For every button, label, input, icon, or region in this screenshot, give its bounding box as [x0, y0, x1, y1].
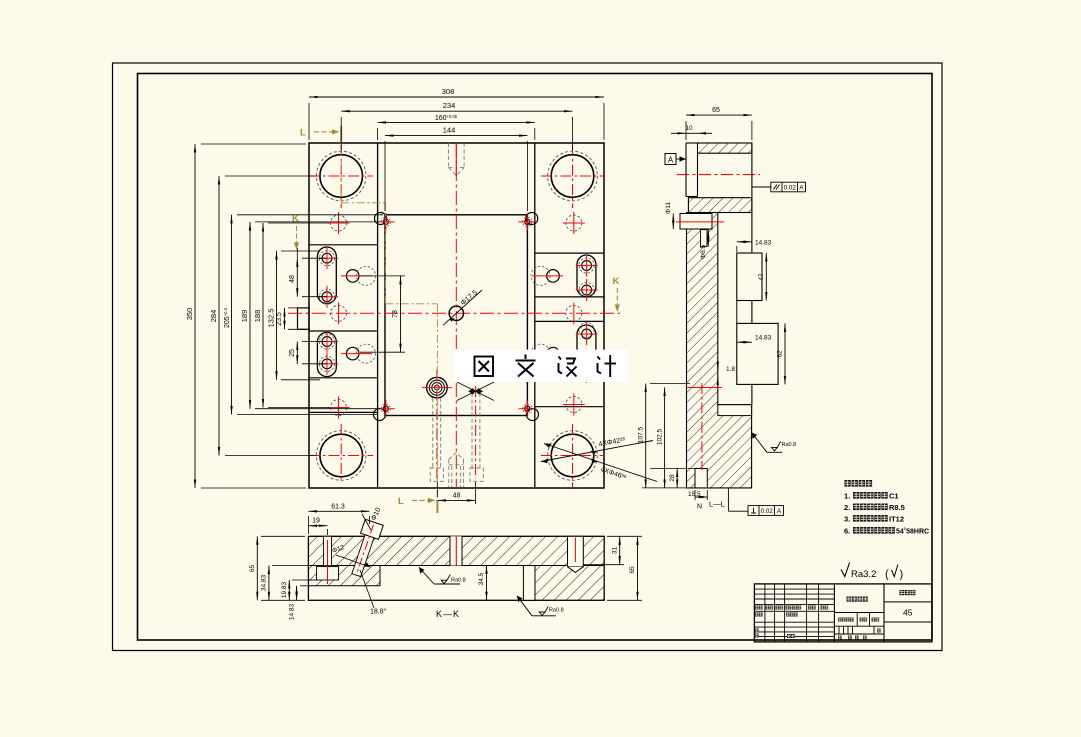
svg-text:61.3: 61.3: [331, 503, 345, 510]
surface symbol KK right: [517, 596, 564, 616]
dim 234 top: [341, 101, 572, 150]
sheet count row: [838, 636, 867, 640]
svg-text:Φ11: Φ11: [665, 202, 672, 214]
dim 107.5: [638, 384, 691, 488]
guide hole top-left: [309, 145, 373, 208]
note 1: [844, 492, 899, 501]
svg-text:34.5: 34.5: [478, 572, 485, 585]
slot left upper: [316, 247, 338, 308]
vent hole right bottom: [563, 394, 585, 416]
dim 25 slot: [289, 342, 327, 364]
dim 62: [777, 323, 786, 384]
dim 102.5: [657, 387, 665, 488]
svg-text:48: 48: [289, 275, 296, 283]
title block middle cells: [834, 613, 884, 635]
svg-text:188: 188: [253, 310, 262, 323]
dim 23.5: [276, 308, 285, 329]
svg-text:47: 47: [758, 273, 765, 281]
svg-text:6.: 6.: [844, 527, 850, 536]
corner screw TL: [377, 213, 395, 231]
watermark glyph SHE: [559, 357, 577, 377]
left table texts: [755, 606, 828, 610]
dim 1.8: [718, 362, 736, 384]
svg-text:0.02: 0.02: [761, 508, 774, 515]
dim 189 left: [240, 222, 380, 409]
label phi10: [362, 507, 383, 530]
svg-text:N: N: [697, 504, 702, 511]
KK white channel: [523, 566, 535, 601]
svg-text:Ra0.8: Ra0.8: [782, 442, 797, 448]
notch white in wall: [718, 405, 752, 416]
slot left lower: [316, 331, 338, 377]
svg-text:14.83: 14.83: [289, 603, 296, 620]
right step line: [534, 143, 536, 488]
svg-text:189: 189: [240, 310, 249, 323]
left step line: [377, 143, 379, 488]
svg-text:14.83: 14.83: [755, 335, 772, 342]
KK centre sprue hole: [450, 536, 462, 565]
dim 48 bottom: [437, 482, 475, 504]
svg-text:62: 62: [777, 350, 784, 358]
dim phi11: [665, 202, 673, 229]
dim 284 left: [209, 176, 316, 456]
parallelism frame: [752, 182, 806, 192]
right strip step lines: [535, 253, 604, 407]
left edge notch: [288, 308, 310, 329]
section line L-L: [300, 126, 437, 513]
svg-text:1.: 1.: [844, 492, 850, 501]
KK left block bottom edge: [308, 566, 380, 586]
dim 19.83: [281, 580, 310, 600]
dim 132.5 left: [267, 251, 321, 380]
svg-text:28: 28: [669, 474, 676, 482]
left strip step lines: [309, 245, 378, 413]
vent hole right top: [563, 212, 585, 234]
dim 28: [642, 469, 697, 488]
surface finish symbol right view: [752, 433, 797, 453]
svg-text:C1: C1: [889, 492, 899, 501]
counterbore right upper: [531, 266, 563, 285]
svg-text:65: 65: [712, 107, 720, 114]
centre hole leader: [443, 289, 482, 325]
watermark glyph WEN: [516, 355, 536, 377]
svg-text:65: 65: [249, 565, 256, 573]
svg-text:54˚58HRC: 54˚58HRC: [896, 528, 929, 536]
dim 34.5: [478, 566, 487, 601]
dim 65 KK right: [607, 536, 642, 600]
dim 10 top: [671, 125, 712, 133]
notes title: [845, 480, 873, 487]
KK left lower hatch block: [308, 566, 380, 586]
surface symbol KK middle: [419, 567, 466, 584]
svg-text:107.5: 107.5: [638, 426, 645, 443]
KK slanted hole: [347, 519, 383, 578]
material 45: [903, 608, 913, 618]
title block vertical lines: [765, 584, 884, 642]
red centerline lower wall: [686, 383, 722, 470]
KK right hatch block: [535, 566, 604, 601]
dim 19: [308, 518, 327, 535]
svg-text:Φ6.5: Φ6.5: [700, 245, 707, 260]
datum A flag: [665, 154, 686, 165]
svg-text:144: 144: [443, 126, 456, 135]
svg-text:Ra0.8: Ra0.8: [451, 578, 466, 584]
sleeve bore centerline: [677, 174, 760, 176]
svg-text:L: L: [398, 496, 404, 507]
guide bushing: [422, 377, 452, 398]
svg-text:102.5: 102.5: [657, 428, 664, 445]
hidden screw column right of centre: [470, 386, 483, 481]
title block right column lines: [884, 602, 932, 622]
outer border frame: [113, 63, 943, 651]
svg-text:19.83: 19.83: [281, 581, 288, 598]
watermark glyph JI: [598, 355, 617, 377]
dim 31: [583, 536, 624, 564]
vent hole left bottom: [328, 397, 350, 419]
dim 144 top: [385, 126, 527, 211]
hidden sprue top: [448, 143, 464, 176]
plate outline: [309, 143, 604, 488]
svg-text:34.83: 34.83: [261, 574, 268, 591]
note 2: [844, 503, 905, 512]
svg-text:48: 48: [453, 492, 461, 499]
corner screw BL: [377, 400, 395, 418]
phi11 hole: [676, 214, 724, 230]
dim 188 left: [253, 223, 329, 408]
slot right lower: [576, 322, 598, 383]
pocket rectangle: [385, 215, 527, 416]
vent hole left top: [328, 212, 350, 234]
dim 65 KK left: [249, 536, 305, 600]
svg-text:(: (: [885, 569, 889, 581]
dim 18.8deg: [360, 570, 387, 616]
svg-text:25: 25: [289, 349, 296, 357]
KK band bottom edge: [308, 565, 604, 567]
guide hole top-right: [541, 145, 604, 208]
svg-text:2.: 2.: [844, 503, 850, 512]
svg-text:IT12: IT12: [889, 515, 904, 524]
vent hole right mid: [566, 302, 582, 324]
counterbore group label 4x42: [541, 436, 653, 463]
svg-text:45: 45: [903, 608, 913, 618]
svg-text:234: 234: [443, 101, 456, 110]
svg-text:350: 350: [185, 308, 194, 321]
dim 48 slot: [289, 248, 327, 297]
counterbore left upper: [341, 266, 376, 285]
KK screw hole: [317, 536, 339, 584]
KK label: [436, 609, 460, 619]
svg-text:Ra3.2: Ra3.2: [851, 569, 876, 580]
sleeve top hatch band: [698, 143, 752, 153]
svg-text:14.83: 14.83: [755, 239, 772, 246]
dim 61.3: [308, 503, 369, 534]
pocket corner arcs: [374, 213, 539, 421]
counterbore group label 4x46: [544, 444, 657, 482]
counterbore right lower: [531, 344, 563, 363]
svg-text:65: 65: [629, 566, 636, 574]
hidden sprue bottom centre: [449, 453, 464, 488]
centre hole: [449, 306, 463, 320]
title block horizontal lines left table: [754, 589, 834, 637]
svg-text:L: L: [300, 128, 306, 139]
dim 14.83 KK: [289, 586, 311, 620]
slot right upper: [576, 255, 598, 302]
dim 34.83: [261, 566, 345, 601]
dim 308 top: [309, 87, 604, 140]
dim 14.83 upper: [737, 239, 772, 252]
title block frame: [754, 584, 932, 642]
svg-text:Ra0.8: Ra0.8: [549, 608, 564, 614]
svg-text:1.8: 1.8: [726, 366, 735, 373]
svg-text:L—L: L—L: [709, 500, 725, 509]
dim 160 top: [378, 114, 535, 140]
svg-text:18.8°: 18.8°: [370, 608, 387, 616]
corner screw BR: [519, 400, 537, 418]
hidden screw column left of centre: [430, 370, 443, 481]
university name: [847, 597, 868, 602]
svg-text:K—K: K—K: [436, 609, 460, 619]
svg-text:0.02: 0.02: [784, 185, 797, 192]
svg-text:284: 284: [209, 310, 218, 323]
label N and L-L: [697, 500, 725, 511]
KK top hatch band: [308, 536, 604, 565]
guide hole bottom-left: [309, 424, 373, 482]
svg-text:10: 10: [685, 125, 693, 132]
side pocket rect lower: [737, 323, 778, 384]
guide hole bottom-right: [541, 424, 604, 487]
svg-text:78: 78: [392, 310, 399, 318]
svg-text:A: A: [668, 156, 674, 165]
dim 350 left: [185, 144, 306, 488]
dim 14.83 lower: [737, 335, 772, 343]
svg-text:R8.5: R8.5: [889, 503, 905, 512]
dim 78: [360, 276, 405, 352]
note 6: [844, 527, 929, 536]
section line K-K markers: [292, 214, 620, 313]
label phi12 leader: [331, 544, 370, 567]
svg-text:): ): [900, 569, 904, 581]
main horizontal centerline: [288, 312, 620, 314]
dim 47: [758, 253, 766, 301]
watermark white box: [454, 350, 627, 382]
svg-text:K: K: [613, 276, 620, 287]
dim phi6.5: [700, 230, 708, 260]
sleeve left lip: [686, 143, 698, 197]
svg-text:23.5: 23.5: [276, 312, 283, 326]
phi6.5 hole: [701, 230, 708, 247]
perpendicularity frame: [728, 488, 783, 516]
corner screw TR: [519, 213, 537, 231]
counterbore left lower: [341, 344, 376, 363]
svg-text:132.5: 132.5: [267, 309, 276, 328]
right edge line: [751, 143, 753, 405]
KK blind hole right: [568, 536, 584, 572]
svg-text:15.5: 15.5: [688, 491, 701, 498]
inner border frame: [138, 74, 933, 641]
plate top hatch band: [688, 198, 752, 213]
vent hole left mid: [331, 302, 347, 324]
svg-text:308: 308: [442, 87, 455, 96]
middle small cell texts: [838, 618, 881, 633]
main wall hatched: [687, 213, 752, 488]
part name: [900, 590, 916, 595]
svg-text:31: 31: [612, 547, 619, 555]
dim 15.5: [688, 490, 707, 500]
N slot: [695, 469, 707, 488]
side pocket connecting line: [736, 301, 738, 324]
KK body outline: [308, 536, 604, 600]
crossed leader arrows at hidden hole: [457, 382, 494, 401]
main vertical centerline: [455, 143, 457, 489]
dim 205 left: [223, 215, 383, 415]
svg-text:19: 19: [312, 518, 320, 525]
side pocket rect upper: [737, 253, 762, 301]
svg-text:3.: 3.: [844, 515, 850, 524]
note 3: [844, 515, 904, 524]
dim 65 top: [686, 107, 752, 140]
watermark glyph TU: [475, 357, 494, 377]
